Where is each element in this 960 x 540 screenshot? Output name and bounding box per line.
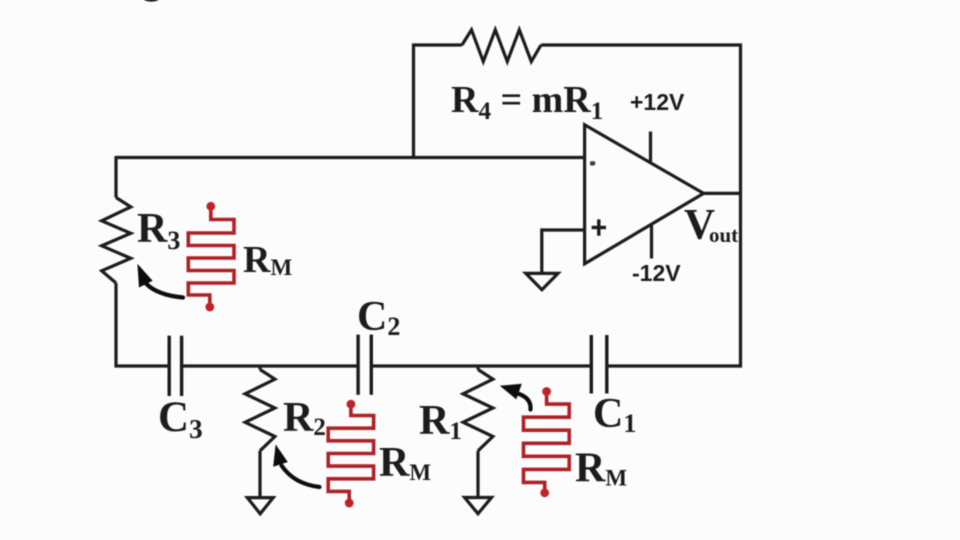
svg-text:-12V: -12V (632, 260, 681, 286)
svg-text:out: out (709, 223, 738, 247)
svg-text:+12V: +12V (630, 89, 685, 115)
svg-text:R4 = mR1: R4 = mR1 (451, 79, 603, 125)
